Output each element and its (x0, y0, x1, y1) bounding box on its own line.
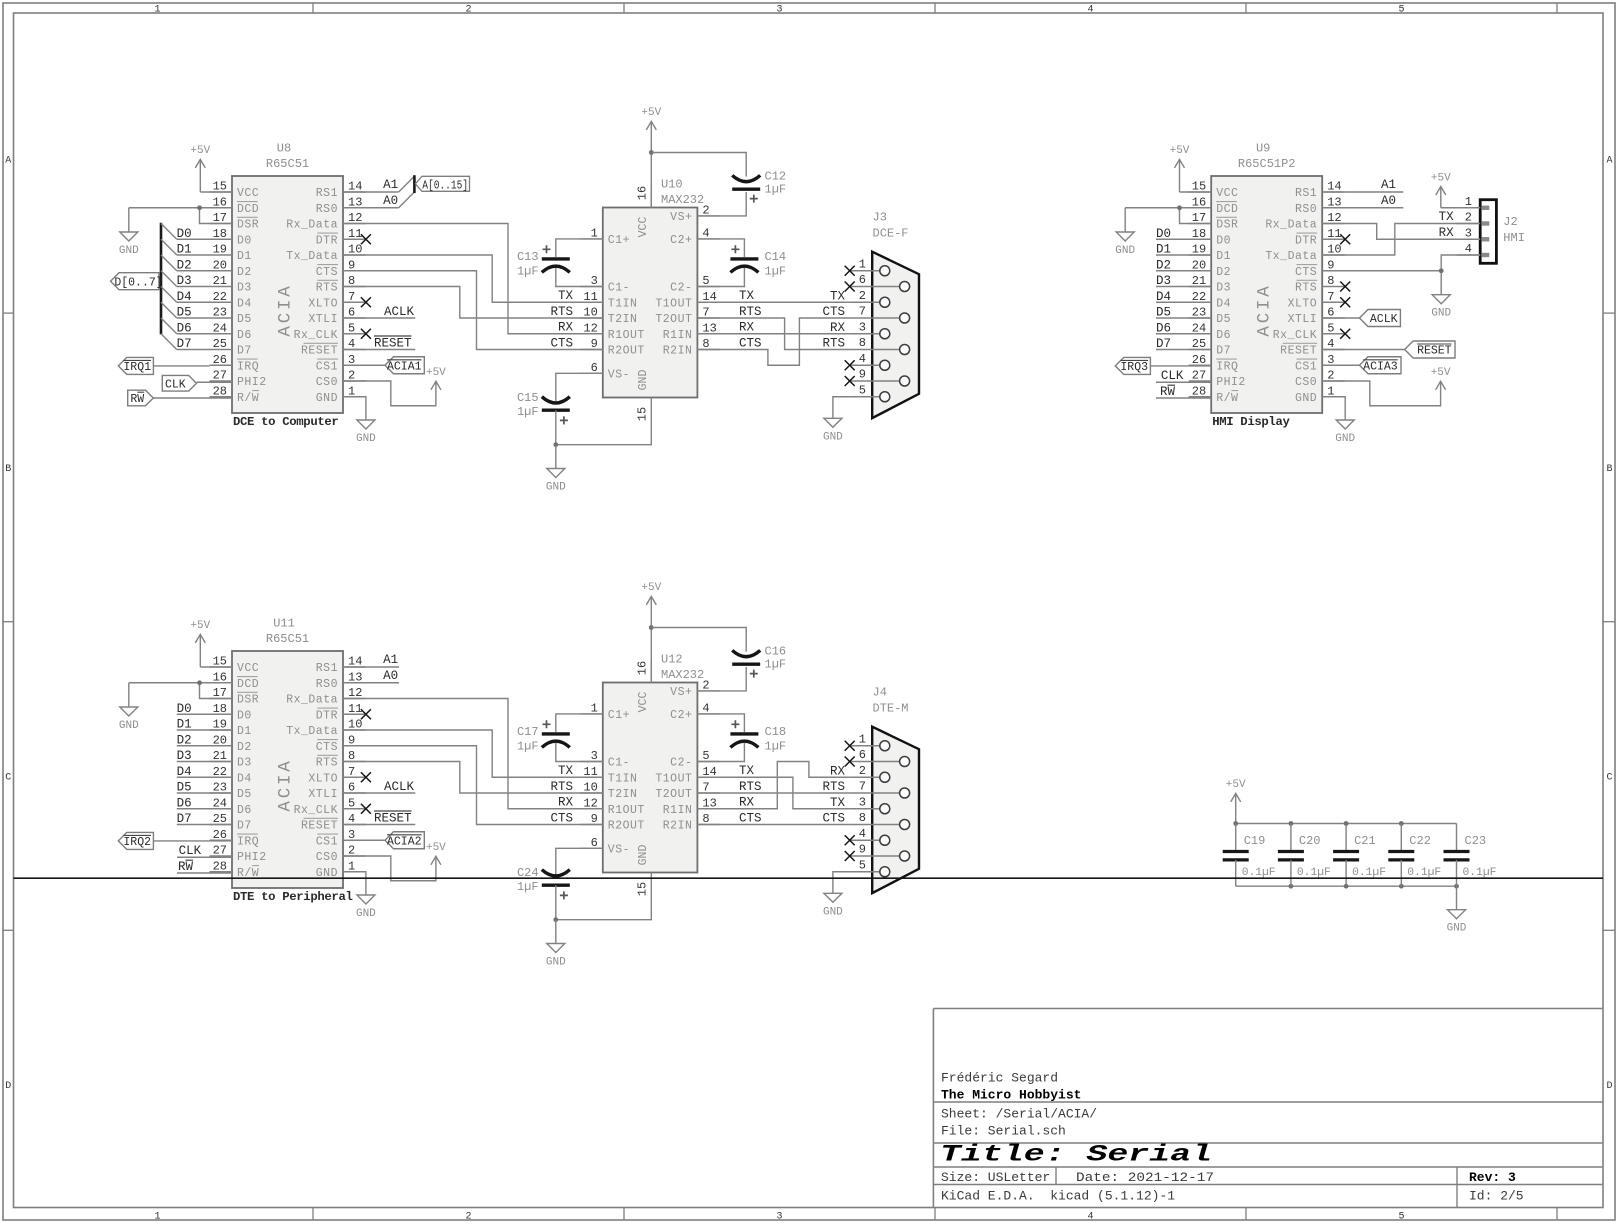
U12 right net label CTS (739, 812, 762, 826)
svg-text:2: 2 (465, 5, 471, 16)
svg-text:20: 20 (213, 258, 227, 272)
U11 junction DCD node (197, 680, 202, 685)
svg-text:21: 21 (213, 274, 227, 288)
wire C2+ to C18 (697, 714, 744, 732)
U8 bus label A[0..15] (415, 176, 469, 192)
svg-text:1µF: 1µF (517, 265, 539, 279)
svg-text:0.1µF: 0.1µF (1463, 867, 1497, 879)
J3 net label TX (pin 2) (830, 289, 846, 303)
wire C16 to VS+ pin 2 (697, 667, 746, 691)
U11 wire GND pin 1 (343, 872, 366, 895)
U11 no-connect pin 5 (361, 804, 371, 814)
svg-text:27: 27 (1192, 369, 1206, 383)
wire U11 Tx_Data to U12 T1IN (TX) (343, 730, 603, 777)
U9 net labels D0-D7 (1156, 227, 1171, 351)
svg-text:+5V: +5V (1170, 145, 1190, 157)
IC U11 pin numbers (213, 655, 363, 874)
svg-text:VCC: VCC (237, 662, 259, 675)
svg-text:RS0: RS0 (316, 203, 338, 216)
U11 wire/label A1 (343, 653, 399, 667)
title block frame (933, 1009, 1603, 1208)
svg-text:RW: RW (130, 393, 144, 406)
svg-text:ACIA: ACIA (276, 758, 296, 811)
svg-text:CTS: CTS (550, 337, 573, 351)
svg-text:TX: TX (830, 289, 846, 303)
connector J2 body (1480, 200, 1496, 264)
svg-text:A0: A0 (1381, 194, 1396, 208)
svg-text:GND: GND (546, 482, 566, 494)
svg-text:TX: TX (1439, 210, 1455, 224)
J4 net label CTS (pin 8) (822, 812, 845, 826)
svg-text:8: 8 (859, 336, 866, 350)
svg-text:RESET: RESET (374, 337, 412, 351)
U10 right net label RTS (739, 305, 762, 319)
IC U9 R65C51P2 body (1211, 176, 1322, 413)
U9 no-connect pin 11 (1340, 234, 1350, 244)
IC U10 reference label (661, 178, 683, 192)
U9 wire CS0 to +5V (1322, 381, 1440, 406)
wire C14 to C2- (697, 268, 744, 287)
svg-text:D4: D4 (237, 297, 252, 310)
svg-text:C21: C21 (1354, 834, 1376, 848)
IC U12 VCC pin name (rotated) (637, 692, 650, 713)
U9 global label IRQ3 (1115, 357, 1211, 374)
title block file (941, 1124, 1066, 1139)
svg-text:MAX232: MAX232 (661, 668, 704, 682)
svg-text:1µF: 1µF (765, 740, 787, 754)
U10 +5V junction (649, 150, 654, 155)
U11 no-connect pin 11 (361, 709, 371, 719)
connector J2 pin numbers (1465, 195, 1472, 256)
wire C13 to C1- (556, 268, 603, 287)
svg-text:D6: D6 (237, 804, 252, 817)
svg-text:R65C51: R65C51 (266, 632, 309, 646)
connector J2 pin pads (1482, 206, 1490, 258)
svg-text:D7: D7 (177, 337, 192, 351)
IC U8 pin stubs (210, 192, 366, 397)
U9 wire GND pin 1 (1322, 397, 1345, 420)
IC U10 VCC pin name (rotated) (637, 217, 650, 238)
svg-text:D1: D1 (1216, 250, 1231, 263)
svg-text:U8: U8 (277, 142, 291, 156)
title block kicad version (941, 1189, 1175, 1204)
svg-text:PHI2: PHI2 (237, 851, 267, 864)
J2 net label RX (1439, 226, 1455, 240)
svg-text:+5V: +5V (190, 145, 210, 157)
svg-text:5: 5 (348, 321, 355, 335)
svg-text:D7: D7 (1156, 337, 1171, 351)
svg-text:D3: D3 (237, 282, 252, 295)
J4 no-connect pin 9 (845, 851, 855, 861)
IC U12 MAX232 body (603, 683, 698, 873)
svg-text:11: 11 (348, 702, 362, 716)
svg-text:The Micro Hobbyist: The Micro Hobbyist (941, 1088, 1081, 1103)
svg-text:R1OUT: R1OUT (608, 329, 645, 342)
svg-text:ACIA3: ACIA3 (1363, 360, 1398, 373)
svg-text:C18: C18 (765, 725, 787, 739)
U11 wire/label CLK (177, 844, 232, 858)
wire U11 RTS to U12 T2IN (RTS) (343, 762, 603, 794)
svg-text:CLK: CLK (1161, 369, 1184, 383)
U9 wire/label RW (1156, 385, 1211, 399)
svg-text:RTS: RTS (550, 305, 573, 319)
IC U9 caption HMI Display (1212, 415, 1290, 429)
J3 GND symbol (823, 418, 843, 443)
svg-text:1µF: 1µF (765, 265, 787, 279)
svg-text:C2+: C2+ (670, 709, 692, 722)
wire U8 Rx_Data to U10 R1OUT (RX) (343, 224, 603, 334)
wire U12 T2OUT to J4 pin7 (RTS) (697, 792, 849, 794)
svg-text:26: 26 (213, 353, 227, 367)
svg-text:15: 15 (636, 882, 650, 896)
svg-text:C22: C22 (1409, 834, 1431, 848)
wire C1+ to C17 (556, 714, 603, 732)
svg-text:C16: C16 (765, 645, 787, 659)
IC U12 pin names (608, 686, 693, 856)
svg-text:RS0: RS0 (316, 678, 338, 691)
connector J3 pin numbers (859, 257, 866, 397)
svg-text:3: 3 (776, 1212, 782, 1223)
svg-text:MAX232: MAX232 (661, 193, 704, 207)
IC U12 pin numbers (583, 678, 716, 849)
decoupling top rail wire (1236, 823, 1457, 825)
J2 +5V power symbol (1431, 172, 1457, 207)
svg-text:DCE to Computer: DCE to Computer (233, 415, 338, 429)
svg-text:7: 7 (859, 305, 866, 319)
connector J4 pin circles (880, 741, 910, 877)
svg-text:7: 7 (348, 765, 355, 779)
svg-text:+5V: +5V (426, 842, 446, 854)
svg-text:PHI2: PHI2 (237, 376, 267, 389)
U9 data wires D0-D7 (1156, 239, 1211, 349)
svg-text:File: Serial.sch: File: Serial.sch (941, 1124, 1066, 1139)
wire U10 T1OUT to J3 pin2 (TX) (697, 301, 849, 303)
U12 right net label RTS (739, 780, 762, 794)
svg-text:27: 27 (213, 369, 227, 383)
J4 net label RTS (pin 7) (822, 780, 845, 794)
svg-text:D4: D4 (1216, 297, 1231, 310)
title block company (941, 1088, 1081, 1103)
svg-text:A1: A1 (383, 653, 398, 667)
capacitor C17 (517, 720, 570, 753)
svg-text:RESET: RESET (301, 345, 338, 358)
svg-text:27: 27 (213, 844, 227, 858)
connector J4 DTE-M D-sub body (872, 727, 919, 893)
U11 GND symbol (pin 1) (356, 895, 376, 920)
connector J3 pin circles (880, 266, 910, 402)
svg-text:D4: D4 (177, 290, 192, 304)
wire U11 Rx_Data to U12 R1OUT (RX) (343, 699, 603, 809)
svg-text:CLK: CLK (165, 378, 186, 391)
svg-text:C12: C12 (765, 170, 787, 184)
title block date (1076, 1170, 1214, 1185)
decoupling GND drop (1456, 886, 1458, 910)
svg-text:6: 6 (859, 748, 866, 762)
U12 GND symbol (546, 920, 566, 969)
svg-text:16: 16 (636, 661, 650, 675)
svg-text:1µF: 1µF (517, 880, 539, 894)
svg-text:GND: GND (119, 720, 139, 732)
U11 wire CS0 to +5V (343, 856, 436, 881)
svg-text:DTR: DTR (316, 234, 338, 247)
svg-text:D: D (1606, 1081, 1612, 1092)
U11 wire/label ACLK pin 6 (343, 780, 415, 794)
svg-text:GND: GND (637, 845, 650, 866)
svg-text:Size: USLetter: Size: USLetter (941, 1170, 1050, 1185)
svg-text:D0: D0 (1156, 227, 1171, 241)
svg-text:4: 4 (1087, 5, 1093, 16)
U11 left GND symbol (119, 683, 139, 732)
svg-text:VS+: VS+ (670, 211, 692, 224)
svg-text:RESET: RESET (1417, 345, 1452, 358)
svg-text:RS0: RS0 (1295, 203, 1317, 216)
svg-text:DTR: DTR (1295, 234, 1317, 247)
wire U12 T1OUT to J4 pin3 (TX) (697, 777, 849, 809)
svg-text:VS+: VS+ (670, 686, 692, 699)
svg-text:22: 22 (213, 290, 227, 304)
svg-text:DCD: DCD (237, 203, 259, 216)
capacitor C13 (517, 245, 570, 278)
U9 global label ACLK (1322, 310, 1400, 327)
svg-text:1µF: 1µF (765, 183, 787, 197)
svg-text:3: 3 (859, 320, 866, 334)
wire +5V to C12 (651, 153, 746, 177)
svg-text:4: 4 (1087, 1212, 1093, 1223)
svg-text:12: 12 (348, 686, 362, 700)
J2 junction pin4/CTS (1439, 268, 1444, 273)
connector J4 pin stubs (850, 746, 900, 872)
U9 GND symbol (pin 1) (1335, 420, 1355, 445)
svg-text:T1OUT: T1OUT (655, 297, 692, 310)
svg-text:A: A (1606, 155, 1612, 166)
svg-text:Title: Serial: Title: Serial (940, 1142, 1212, 1168)
wire U10 T2OUT to J3 pin8 (RTS) (697, 318, 849, 350)
U10 ground junction (553, 442, 558, 447)
svg-text:R2OUT: R2OUT (608, 820, 645, 833)
capacitor C15 (517, 391, 570, 424)
U9 +5V symbol (CS0) (1431, 367, 1451, 390)
connector J4 reference (873, 686, 887, 700)
capacitor C19 (1223, 824, 1276, 887)
U9 wire Tx_Data to J2 pin2 (1322, 224, 1480, 256)
U8 bus label D[0..7] (111, 273, 163, 290)
svg-text:RX: RX (830, 321, 846, 335)
svg-text:D7: D7 (1216, 345, 1231, 358)
svg-text:RESET: RESET (1280, 345, 1317, 358)
capacitor C22 (1388, 824, 1441, 887)
U8 junction DCD node (197, 205, 202, 210)
svg-text:RTS: RTS (739, 780, 762, 794)
svg-text:C13: C13 (517, 250, 539, 264)
svg-text:D[0..7]: D[0..7] (114, 277, 162, 290)
U8 address bus stub A[0..15] (413, 175, 416, 193)
svg-text:D2: D2 (237, 266, 252, 279)
svg-text:D1: D1 (237, 250, 252, 263)
svg-text:CTS: CTS (550, 812, 573, 826)
wire U10 R1IN to J3 pin3 (RX) (697, 333, 849, 335)
connector J3 value DCE-F (873, 227, 909, 241)
svg-text:XLTO: XLTO (308, 297, 338, 310)
svg-text:RX: RX (1439, 226, 1455, 240)
svg-text:R2IN: R2IN (663, 820, 693, 833)
svg-text:D1: D1 (237, 725, 252, 738)
svg-text:5: 5 (1327, 321, 1334, 335)
U10 left net label TX (558, 289, 574, 303)
U12 right net label TX (739, 764, 755, 778)
svg-text:+5V: +5V (1431, 172, 1451, 184)
svg-text:DSR: DSR (237, 219, 259, 232)
svg-text:Tx_Data: Tx_Data (286, 250, 338, 263)
IC U12 pin 15 GND stub (650, 873, 652, 896)
svg-text:28: 28 (213, 384, 227, 398)
U11 global label ACIA2 (343, 832, 424, 849)
svg-text:U10: U10 (661, 178, 683, 192)
svg-text:D2: D2 (177, 258, 192, 272)
U12 +5V power symbol (641, 582, 661, 682)
svg-text:VCC: VCC (1216, 187, 1238, 200)
svg-text:D7: D7 (177, 812, 192, 826)
title block author (941, 1071, 1058, 1086)
J3 no-connect pin 4 (845, 360, 855, 370)
wire U12 R2IN to J4 pin8 (CTS) (697, 824, 849, 826)
U8 net label A0 (383, 194, 398, 208)
svg-text:15: 15 (636, 407, 650, 421)
U9 no-connect pin 8 (1340, 282, 1350, 292)
U12 left net label RTS (550, 780, 573, 794)
U8 global label ACIA1 (343, 357, 424, 374)
U11 no-connect pin 7 (361, 772, 371, 782)
svg-text:IRQ2: IRQ2 (123, 836, 151, 849)
svg-text:CTS: CTS (739, 812, 762, 826)
IC U10 pin 16 number (636, 186, 650, 200)
svg-text:KiCad E.D.A. kicad (5.1.12)-1: KiCad E.D.A. kicad (5.1.12)-1 (941, 1189, 1175, 1204)
svg-text:+5V: +5V (426, 367, 446, 379)
svg-text:A1: A1 (383, 178, 398, 192)
svg-text:B: B (1606, 464, 1612, 475)
svg-text:11: 11 (1327, 227, 1341, 241)
svg-text:D1: D1 (177, 243, 192, 257)
decoupling bottom rail wire (1236, 885, 1457, 887)
svg-text:19: 19 (213, 243, 227, 257)
capacitor C12 (732, 170, 786, 203)
svg-text:7: 7 (348, 290, 355, 304)
J3 net label RX (pin 3) (830, 321, 846, 335)
U12 left net label RX (558, 796, 574, 810)
svg-text:GND: GND (356, 433, 376, 445)
svg-text:CLK: CLK (179, 844, 202, 858)
svg-text:D0: D0 (177, 227, 192, 241)
U11 global label IRQ2 (118, 832, 232, 849)
U9 global label ACIA3 (1322, 357, 1401, 374)
IC U12 pin 16 number (636, 661, 650, 675)
svg-text:4: 4 (859, 352, 866, 366)
svg-text:+5V: +5V (641, 582, 661, 594)
wire C12 to VS+ pin 2 (697, 192, 746, 216)
svg-text:Tx_Data: Tx_Data (1265, 250, 1317, 263)
title block title (940, 1142, 1212, 1168)
svg-text:3: 3 (1465, 226, 1472, 240)
svg-text:IRQ: IRQ (237, 360, 259, 373)
svg-text:RTS: RTS (316, 282, 338, 295)
svg-text:Rx_Data: Rx_Data (286, 694, 338, 707)
svg-text:CS1: CS1 (316, 360, 338, 373)
svg-text:VCC: VCC (237, 187, 259, 200)
svg-text:26: 26 (213, 828, 227, 842)
svg-text:+5V: +5V (1431, 367, 1451, 379)
svg-text:RS1: RS1 (316, 662, 338, 675)
IC U12 value label (661, 668, 704, 682)
capacitor C16 (732, 645, 786, 678)
svg-text:D2: D2 (237, 741, 252, 754)
J4 no-connect pin 4 (845, 835, 855, 845)
svg-text:0.1µF: 0.1µF (1407, 867, 1441, 879)
wire VS- to C15 (556, 373, 603, 401)
svg-text:GND: GND (1447, 923, 1467, 935)
svg-text:Tx_Data: Tx_Data (286, 725, 338, 738)
svg-text:T1IN: T1IN (608, 772, 638, 785)
svg-text:Rx_CLK: Rx_CLK (294, 329, 338, 342)
U8 net labels D0-D7 (177, 227, 192, 351)
IC U10 value label (661, 193, 704, 207)
svg-text:D1: D1 (1156, 243, 1171, 257)
J4 net label RX (pin 2) (830, 764, 846, 778)
IC U12 reference label (661, 653, 683, 667)
svg-text:D2: D2 (1216, 266, 1231, 279)
IC U8 pin numbers (213, 180, 363, 399)
svg-text:D3: D3 (237, 757, 252, 770)
svg-text:RTS: RTS (822, 337, 845, 351)
U8 global label IRQ1 (118, 357, 209, 374)
svg-text:A1: A1 (1381, 178, 1396, 192)
svg-text:CTS: CTS (739, 337, 762, 351)
svg-text:CS1: CS1 (1295, 360, 1317, 373)
svg-text:16: 16 (636, 186, 650, 200)
svg-text:2: 2 (1465, 211, 1472, 225)
IC U10 pin 15 number (636, 407, 650, 421)
connector J4 pin numbers (859, 732, 866, 872)
wire U8 RTS to U10 T2IN (RTS) (343, 287, 603, 319)
svg-text:6: 6 (859, 273, 866, 287)
svg-text:9: 9 (859, 368, 866, 382)
svg-text:IRQ3: IRQ3 (1120, 361, 1148, 374)
IC U10 pin 15 GND stub (650, 398, 652, 421)
svg-text:D3: D3 (1156, 274, 1171, 288)
svg-text:TX: TX (558, 764, 574, 778)
U8 +5V power symbol (190, 145, 232, 192)
wire U12 R1IN to J4 pin2 (RX) (697, 762, 849, 809)
U9 no-connect pin 7 (1340, 297, 1350, 307)
U8 no-connect pin 5 (361, 329, 371, 339)
U11 DCD/DSR ground tie wire (129, 683, 232, 699)
decoupling GND symbol (1447, 910, 1467, 935)
svg-text:D3: D3 (1216, 282, 1231, 295)
svg-text:ACIA: ACIA (1255, 283, 1275, 336)
U11 +5V symbol (CS0) (426, 842, 446, 865)
svg-text:A0: A0 (383, 669, 398, 683)
svg-text:RESET: RESET (374, 812, 412, 826)
svg-text:DCE-F: DCE-F (873, 227, 909, 241)
IC U8 pin names (237, 187, 338, 405)
svg-text:D5: D5 (237, 313, 252, 326)
U8 data bus D[0..7] (vertical bus) (160, 223, 163, 335)
svg-text:C23: C23 (1465, 834, 1487, 848)
svg-text:D4: D4 (177, 765, 192, 779)
svg-text:RTS: RTS (550, 780, 573, 794)
U10 right net label CTS (739, 337, 762, 351)
svg-text:D1: D1 (177, 718, 192, 732)
svg-text:RX: RX (558, 796, 574, 810)
svg-text:VS-: VS- (608, 368, 630, 381)
